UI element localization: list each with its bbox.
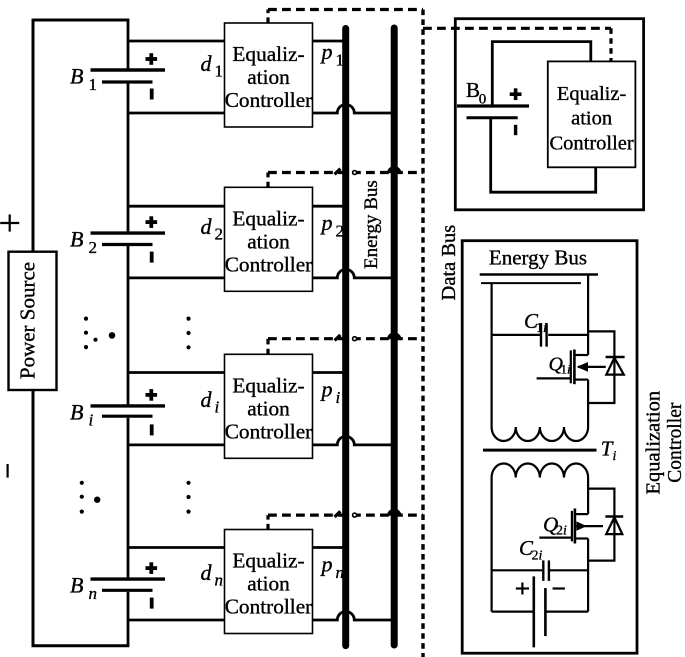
- svg-text:Controller: Controller: [665, 402, 685, 483]
- svg-text:ation: ation: [247, 65, 290, 89]
- svg-text:1: 1: [215, 62, 224, 81]
- svg-text:Equaliz-: Equaliz-: [557, 83, 627, 105]
- svg-text:2: 2: [89, 238, 98, 257]
- svg-text:Equaliz-: Equaliz-: [232, 206, 304, 230]
- svg-text:i: i: [215, 397, 220, 416]
- svg-text:2: 2: [215, 225, 224, 244]
- svg-text:Equaliz-: Equaliz-: [232, 549, 304, 573]
- svg-text:p: p: [320, 210, 333, 235]
- svg-text:p: p: [320, 39, 333, 64]
- svg-text:Controller: Controller: [225, 252, 313, 276]
- svg-text:Equaliz-: Equaliz-: [232, 373, 304, 397]
- svg-text:Energy Bus: Energy Bus: [361, 180, 382, 269]
- svg-text:n: n: [215, 571, 224, 590]
- svg-text:B: B: [70, 400, 83, 425]
- svg-text:Data Bus: Data Bus: [438, 225, 460, 301]
- svg-text:i: i: [336, 388, 341, 407]
- svg-text:ation: ation: [247, 396, 290, 420]
- svg-text:d: d: [201, 387, 213, 412]
- svg-text:i: i: [89, 411, 94, 430]
- svg-text:1i: 1i: [561, 362, 572, 377]
- svg-text:Controller: Controller: [225, 595, 313, 619]
- svg-text:ation: ation: [247, 229, 290, 253]
- svg-text:2i: 2i: [532, 549, 543, 564]
- svg-text:p: p: [320, 552, 333, 577]
- svg-text:Power Source: Power Source: [16, 262, 40, 379]
- svg-text:ation: ation: [571, 108, 612, 130]
- svg-text:d: d: [201, 560, 213, 585]
- svg-text:ation: ation: [247, 572, 290, 596]
- svg-text:Equalization: Equalization: [643, 391, 665, 495]
- svg-text:1i: 1i: [536, 321, 547, 336]
- svg-text:B: B: [70, 227, 83, 252]
- svg-text:Energy Bus: Energy Bus: [489, 246, 587, 270]
- svg-text:B: B: [70, 64, 83, 89]
- svg-text:Equaliz-: Equaliz-: [232, 42, 304, 66]
- svg-text:Controller: Controller: [225, 88, 313, 112]
- svg-text:i: i: [613, 449, 617, 464]
- svg-text:Controller: Controller: [549, 132, 633, 154]
- svg-text:Controller: Controller: [225, 419, 313, 443]
- svg-text:2i: 2i: [556, 524, 567, 539]
- svg-text:d: d: [201, 51, 213, 76]
- svg-text:d: d: [201, 214, 213, 239]
- svg-text:1: 1: [89, 75, 98, 94]
- svg-text:n: n: [89, 584, 98, 603]
- svg-text:p: p: [320, 377, 333, 402]
- svg-text:B: B: [70, 573, 83, 598]
- svg-text:0: 0: [479, 92, 487, 108]
